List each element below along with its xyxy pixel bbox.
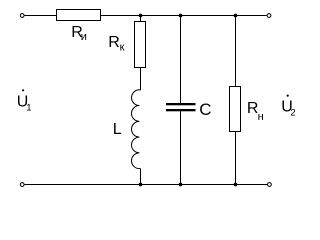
label R_н	[247, 100, 264, 123]
wire bottom: node D to node E	[141, 184, 181, 186]
wire: inductor L to bottom node D	[140, 169, 142, 185]
wire bottom: terminal to node D	[25, 184, 141, 186]
svg-text:2: 2	[290, 108, 295, 119]
wire bottom: node F to output terminal	[236, 184, 268, 186]
wire top: node B to node C	[181, 15, 236, 17]
label U2 output voltage	[281, 95, 295, 119]
wire top: terminal to R1	[25, 15, 56, 17]
capacitor C	[166, 103, 196, 111]
node E junction dot	[179, 183, 183, 187]
label U1 input voltage	[17, 89, 32, 113]
wire top: node C to output terminal	[236, 15, 267, 17]
svg-text:и: и	[81, 31, 87, 43]
wire: capacitor to bottom node E	[180, 111, 182, 184]
wire bottom: node E to node F	[181, 184, 236, 186]
node A junction dot	[139, 14, 143, 18]
svg-text:C: C	[199, 100, 211, 119]
terminal output bottom-right	[268, 183, 272, 187]
svg-text:R: R	[108, 34, 120, 51]
wire: node C down to R_н	[235, 16, 237, 88]
wire: node A down to R_к	[140, 16, 142, 23]
label R_и	[71, 24, 87, 43]
terminal input top-left	[20, 14, 24, 18]
svg-text:1: 1	[26, 103, 31, 114]
node D junction dot	[139, 183, 143, 187]
resistor R_и	[57, 10, 101, 21]
inductor L	[132, 90, 141, 169]
wire: node B down to capacitor	[180, 16, 182, 104]
wire top: R1 to node A	[101, 15, 141, 17]
svg-text:к: к	[120, 41, 125, 53]
terminal output top-right	[267, 14, 271, 18]
svg-text:н: н	[258, 111, 264, 123]
terminal input bottom-left	[20, 183, 24, 187]
wire: R_н to bottom node F	[235, 132, 237, 185]
label R_к	[108, 34, 124, 53]
resistor R_к	[135, 22, 146, 68]
wire: R_к to inductor L	[140, 67, 142, 90]
node F junction dot	[234, 183, 238, 187]
wire top: node A to node B	[141, 15, 181, 17]
node B junction dot	[179, 14, 183, 18]
resistor R_н	[230, 87, 241, 132]
svg-text:L: L	[113, 121, 122, 138]
node C junction dot	[234, 14, 238, 18]
